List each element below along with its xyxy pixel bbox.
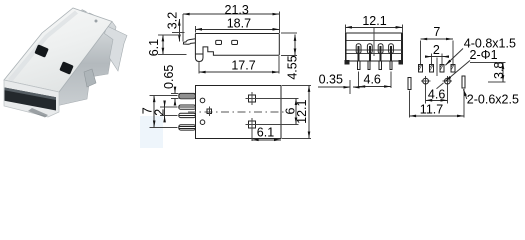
svg-text:21.3: 21.3 (225, 3, 249, 17)
svg-text:18.7: 18.7 (227, 17, 251, 31)
svg-text:11.7: 11.7 (420, 103, 443, 117)
svg-text:2: 2 (433, 43, 440, 57)
svg-text:12.1: 12.1 (362, 14, 386, 28)
svg-text:6.1: 6.1 (147, 39, 161, 56)
svg-text:2-Φ1: 2-Φ1 (470, 48, 498, 62)
svg-text:7: 7 (433, 25, 440, 39)
svg-text:3.2: 3.2 (165, 12, 179, 29)
svg-text:4.55: 4.55 (286, 55, 300, 79)
svg-text:4.6: 4.6 (428, 88, 445, 102)
svg-text:0.35: 0.35 (319, 73, 343, 87)
svg-text:3.8: 3.8 (492, 62, 506, 79)
svg-text:6.1: 6.1 (257, 125, 274, 139)
svg-text:0.65: 0.65 (162, 65, 176, 89)
svg-text:12.1: 12.1 (295, 99, 309, 123)
svg-text:2: 2 (153, 109, 167, 116)
svg-text:17.7: 17.7 (231, 58, 255, 72)
svg-text:4.6: 4.6 (364, 72, 381, 86)
svg-text:2-0.6x2.5: 2-0.6x2.5 (467, 93, 519, 107)
